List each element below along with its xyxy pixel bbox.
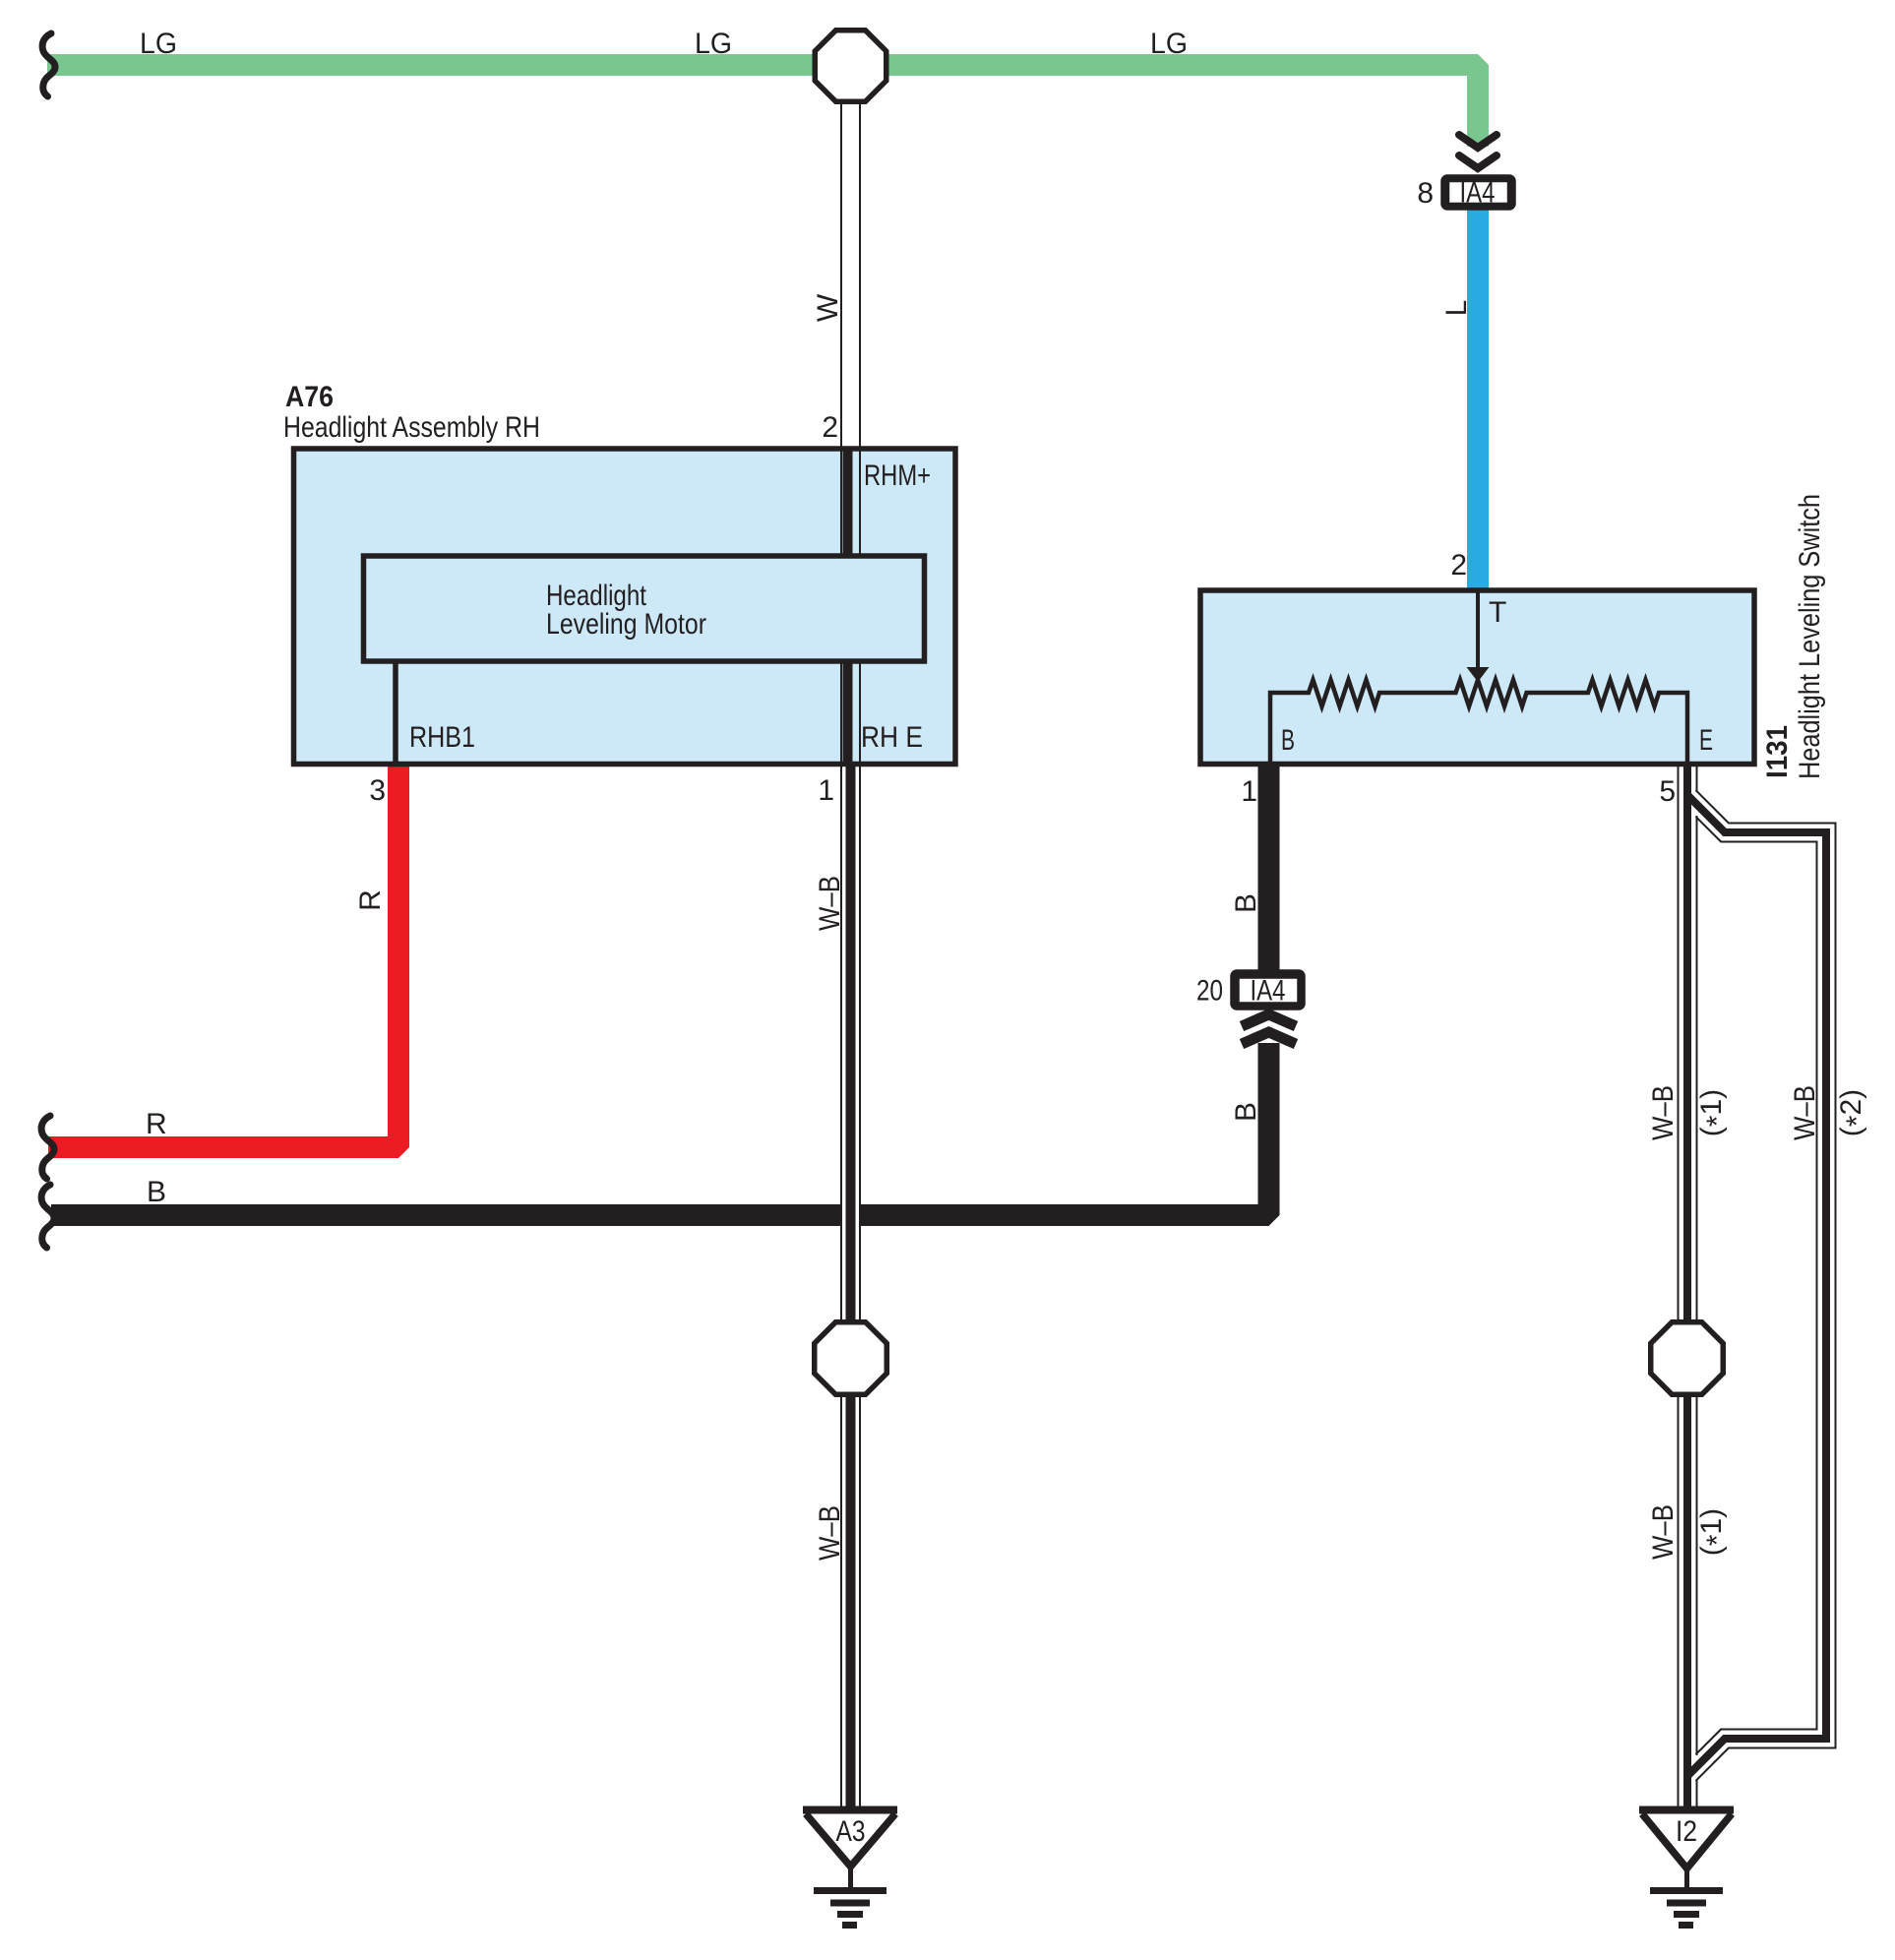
svg-text:LG: LG — [1150, 28, 1188, 60]
svg-text:20: 20 — [1196, 975, 1223, 1008]
svg-text:W–B: W–B — [1789, 1085, 1821, 1140]
svg-text:IA4: IA4 — [1460, 177, 1496, 210]
svg-text:W–B: W–B — [1647, 1085, 1680, 1140]
svg-text:B: B — [147, 1176, 166, 1208]
svg-text:L: L — [1440, 300, 1473, 317]
svg-text:(*1): (*1) — [1695, 1089, 1734, 1136]
svg-text:W–B: W–B — [1647, 1504, 1680, 1560]
svg-text:1: 1 — [1241, 775, 1257, 808]
svg-text:RH E: RH E — [861, 721, 923, 754]
svg-text:IA4: IA4 — [1251, 975, 1286, 1008]
svg-text:8: 8 — [1417, 177, 1434, 210]
svg-text:2: 2 — [822, 411, 838, 444]
svg-text:I2: I2 — [1676, 1815, 1697, 1848]
svg-text:B: B — [1281, 724, 1295, 757]
svg-text:W: W — [812, 293, 844, 322]
svg-text:Leveling Motor: Leveling Motor — [546, 608, 706, 641]
svg-text:Headlight Assembly RH: Headlight Assembly RH — [283, 411, 540, 444]
svg-text:5: 5 — [1659, 775, 1676, 808]
svg-text:A76: A76 — [285, 381, 334, 413]
svg-text:RHM+: RHM+ — [864, 459, 931, 492]
svg-text:B: B — [1230, 1102, 1262, 1122]
svg-text:B: B — [1230, 893, 1262, 913]
svg-text:E: E — [1699, 724, 1713, 757]
svg-text:R: R — [354, 889, 387, 911]
svg-text:Headlight Leveling Switch: Headlight Leveling Switch — [1794, 494, 1826, 779]
svg-text:1: 1 — [818, 774, 834, 807]
svg-text:3: 3 — [369, 774, 386, 807]
svg-text:LG: LG — [140, 28, 177, 60]
svg-text:(*1): (*1) — [1695, 1508, 1734, 1556]
svg-text:W–B: W–B — [814, 876, 846, 931]
svg-text:(*2): (*2) — [1835, 1089, 1873, 1136]
svg-text:W–B: W–B — [814, 1505, 846, 1561]
svg-text:R: R — [146, 1108, 167, 1140]
svg-text:T: T — [1489, 596, 1506, 629]
svg-text:I131: I131 — [1761, 725, 1794, 778]
svg-text:2: 2 — [1450, 549, 1467, 582]
svg-text:LG: LG — [695, 28, 732, 60]
svg-text:RHB1: RHB1 — [409, 721, 475, 754]
svg-text:A3: A3 — [836, 1815, 866, 1848]
